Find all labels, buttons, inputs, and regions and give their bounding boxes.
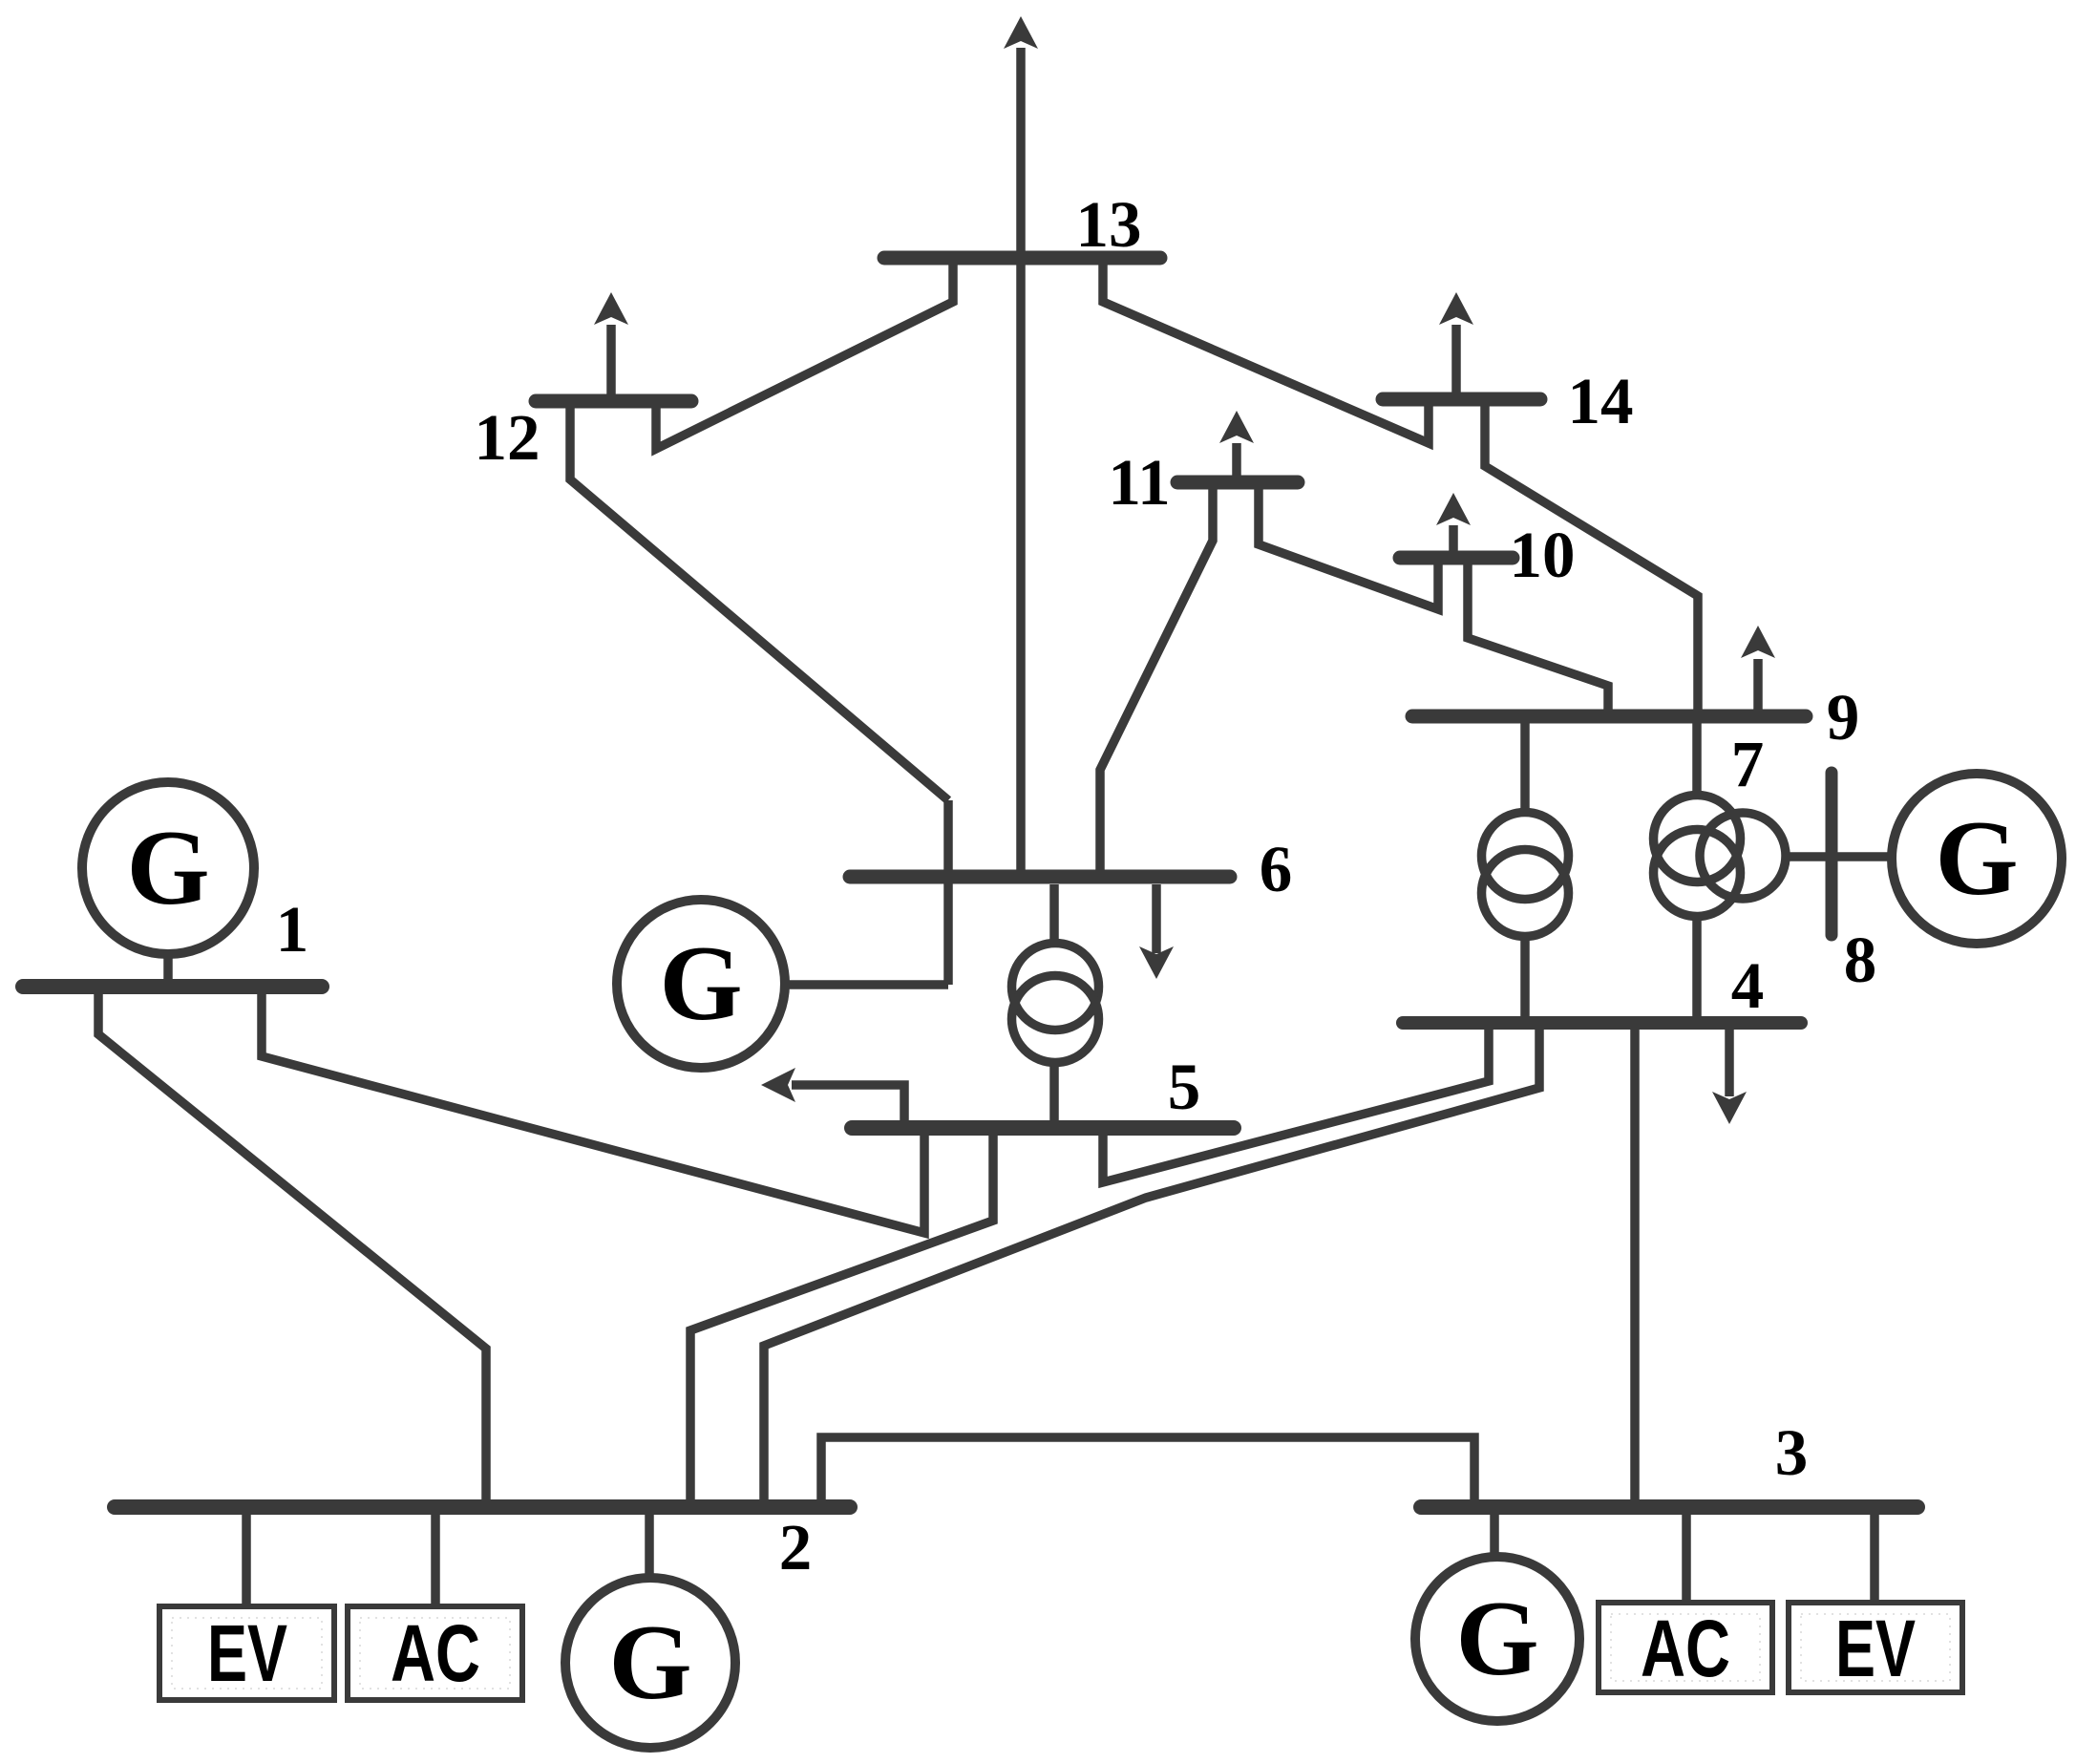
svg-text:AC: AC — [1641, 1604, 1730, 1693]
bus 8 (vertical bar) — [1826, 773, 1838, 935]
AC box at bus 3 — [1599, 1603, 1772, 1692]
wire G6 to junction — [785, 980, 948, 989]
svg-text:12: 12 — [475, 401, 540, 474]
load arrow bus 12 — [606, 325, 616, 394]
wire line 6-12 — [570, 408, 948, 800]
svg-text:G: G — [1455, 1580, 1538, 1698]
generator G2 circle — [565, 1578, 735, 1748]
wire bus3 to EV — [1870, 1515, 1879, 1605]
svg-text:13: 13 — [1076, 188, 1142, 261]
AC box at bus 2 — [348, 1606, 522, 1700]
wire bus2 to G2 — [645, 1515, 654, 1579]
svg-text:11: 11 — [1108, 446, 1170, 519]
svg-text:8: 8 — [1844, 924, 1877, 996]
bus 3 — [1421, 1499, 1917, 1515]
svg-text:7: 7 — [1731, 728, 1765, 800]
bus 13 — [884, 251, 1160, 266]
load arrow bus 13 (top) — [1004, 16, 1038, 49]
transformer 5-6 lower circle — [1012, 976, 1099, 1063]
wire line 9-10 — [1468, 564, 1608, 710]
svg-text:G: G — [1935, 799, 2018, 918]
svg-text:EV: EV — [207, 1608, 287, 1698]
wire transformer 7 to bus 8 and G8 — [1786, 852, 1892, 861]
transformer 4-9 lower circle — [1482, 850, 1569, 937]
svg-text:AC: AC — [391, 1608, 480, 1698]
load arrow bus 6 — [1152, 884, 1161, 953]
svg-text:G: G — [608, 1604, 691, 1722]
wire line 12-13 — [656, 265, 953, 449]
bus 6 — [850, 870, 1230, 884]
wire line 2-3 — [821, 1437, 1474, 1500]
svg-text:5: 5 — [1168, 1051, 1201, 1123]
EV box at bus 2 — [159, 1606, 334, 1700]
bus 11 — [1177, 476, 1298, 490]
wire line 13-14 — [1103, 265, 1429, 443]
wire line 9-14 — [1485, 406, 1698, 710]
wire bus3 to AC — [1682, 1515, 1691, 1605]
svg-text:10: 10 — [1510, 519, 1576, 591]
svg-text:4: 4 — [1731, 949, 1765, 1022]
svg-text:6: 6 — [1260, 833, 1293, 905]
load arrow bus 14 — [1451, 325, 1461, 393]
load arrow bus 11 — [1232, 443, 1241, 476]
generator G1 circle — [82, 782, 254, 954]
svg-text:9: 9 — [1827, 681, 1860, 754]
wire line 2-5 — [690, 1121, 993, 1500]
svg-text:G: G — [126, 809, 209, 927]
wire bus3 to G3 — [1490, 1515, 1499, 1559]
wire bus9 to transformer 4-9 — [1520, 723, 1530, 813]
load arrow bus 10 — [1449, 525, 1458, 551]
bus 2 — [115, 1499, 850, 1515]
bus 12 — [536, 394, 691, 409]
wire transformer 7 to bus4 — [1692, 916, 1702, 1016]
bus 14 — [1383, 393, 1540, 407]
transformer 7 lower circle — [1654, 830, 1741, 917]
transformer 7 upper circle — [1654, 796, 1741, 882]
wire line 3-4 — [1630, 1017, 1640, 1500]
wire transformer 5-6 to bus5 — [1049, 1062, 1059, 1121]
bus 9 — [1412, 710, 1806, 724]
wire line 4-5 — [1103, 1017, 1489, 1182]
bus 5 — [852, 1120, 1234, 1136]
svg-text:1: 1 — [276, 893, 309, 966]
wire line 6-11 — [1100, 489, 1213, 870]
generator G6 circle — [617, 900, 785, 1068]
wire junction to line 6-12 — [943, 800, 953, 985]
wire bus9 to transformer 7 — [1692, 723, 1702, 796]
wire line 10-11 — [1259, 489, 1438, 609]
wire line 1-2 — [98, 994, 486, 1500]
wire transformer 4-9 to bus4 — [1520, 936, 1530, 1016]
transformer 7 tertiary circle — [1700, 813, 1786, 899]
wire line 1-5 — [262, 994, 924, 1233]
wire line 6-13 — [1016, 48, 1026, 870]
EV box at bus 3 — [1789, 1603, 1962, 1692]
svg-text:2: 2 — [779, 1511, 813, 1583]
load arrow bus 4 — [1725, 1030, 1734, 1096]
wire line 2-4 — [764, 1017, 1539, 1500]
wire G1 to bus 1 — [163, 954, 173, 980]
transformer 4-9 upper circle — [1482, 813, 1569, 900]
bus 4 — [1403, 1016, 1801, 1030]
generator G3 circle — [1415, 1557, 1579, 1721]
svg-text:3: 3 — [1775, 1416, 1809, 1489]
svg-text:G: G — [659, 925, 742, 1043]
generator G8 circle — [1892, 774, 2062, 944]
wire bus6 to transformer 5-6 — [1049, 884, 1059, 944]
svg-text:EV: EV — [1835, 1604, 1916, 1693]
bus 10 — [1400, 551, 1513, 565]
wire bus2 to AC — [431, 1515, 440, 1607]
load arrow bus 9 — [1753, 659, 1763, 710]
svg-text:14: 14 — [1568, 365, 1634, 437]
transformer 5-6 upper circle — [1012, 944, 1099, 1031]
wire bus2 to EV — [242, 1515, 251, 1607]
bus 1 — [23, 979, 322, 994]
load arrow bus 5 — [792, 1085, 904, 1121]
